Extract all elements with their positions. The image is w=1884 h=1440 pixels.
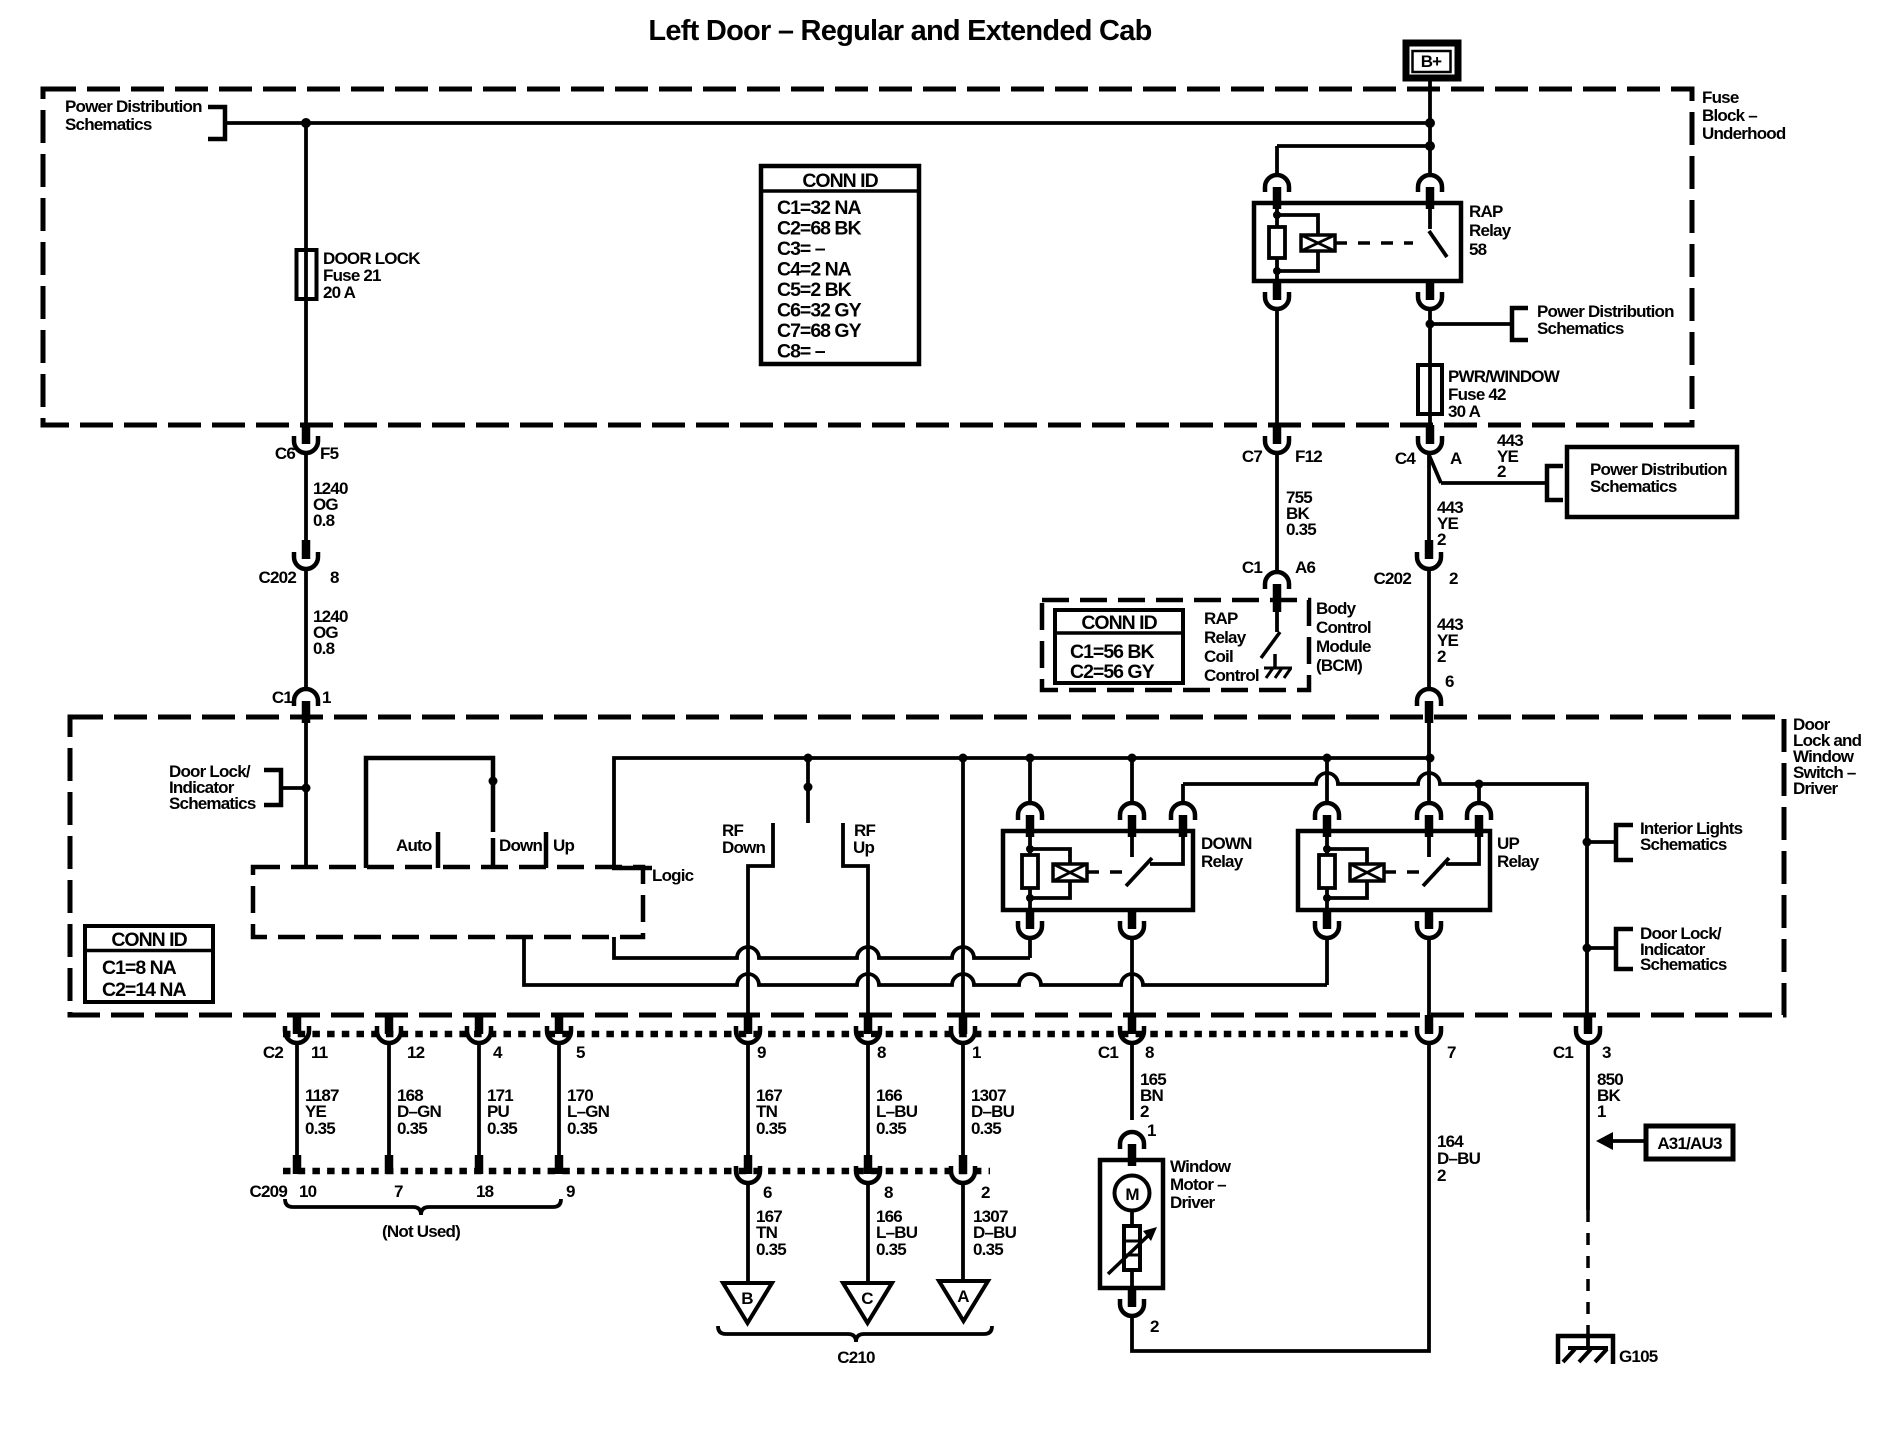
connector C202 pin 8: [259, 540, 339, 587]
node junction at B+ column: [1425, 118, 1435, 128]
wire down NO internal: [1150, 837, 1183, 864]
bracket power distribution top left: [208, 107, 225, 139]
svg-text:CONN ID: CONN ID: [111, 929, 187, 951]
svg-text:C7: C7: [1242, 447, 1262, 466]
connector strip C2 row: [283, 1031, 1414, 1038]
svg-text:0.35: 0.35: [397, 1119, 427, 1138]
svg-text:6: 6: [1445, 672, 1454, 691]
svg-text:18: 18: [476, 1182, 494, 1201]
wire BCM input: [1275, 612, 1279, 632]
fuse F42 PWR/WINDOW: [1418, 365, 1442, 414]
svg-text:C6=32 GY: C6=32 GY: [777, 300, 862, 322]
dashed actuation link RAP: [1335, 241, 1413, 245]
connector pin RAP coil bottom (cup): [1273, 281, 1282, 300]
svg-text:C210: C210: [837, 1348, 875, 1367]
svg-text:0.35: 0.35: [876, 1119, 906, 1138]
switch arm up relay: [1423, 858, 1449, 886]
svg-text:0.35: 0.35: [973, 1240, 1003, 1259]
svg-text:9: 9: [566, 1182, 575, 1201]
svg-text:11: 11: [311, 1043, 328, 1062]
svg-text:A: A: [1450, 449, 1462, 468]
wire down pole leg: [1130, 758, 1134, 803]
svg-text:CONN ID: CONN ID: [1081, 612, 1157, 634]
svg-text:C1=8 NA: C1=8 NA: [102, 957, 177, 979]
dashed actuation link down relay: [1087, 870, 1122, 874]
box A31/AU3: [1646, 1126, 1733, 1159]
BCM dashed box: [1042, 600, 1309, 690]
wire fuse21 column: [304, 123, 308, 425]
svg-text:Control: Control: [1204, 666, 1259, 685]
node rail col 1: [959, 754, 968, 763]
svg-text:Coil: Coil: [1204, 647, 1233, 666]
wire 167 TN upper: [746, 1043, 750, 1155]
wire up pole leg: [1427, 723, 1431, 803]
wire motor internal: [1130, 1211, 1134, 1226]
wire down pole output: [1130, 938, 1134, 1015]
svg-text:5: 5: [576, 1043, 585, 1062]
svg-text:Schematics: Schematics: [1590, 477, 1677, 496]
logic dashed box: [253, 867, 643, 937]
B+ power symbol: [1406, 43, 1458, 78]
svg-text:0.35: 0.35: [1286, 520, 1316, 539]
wire 1187 YE: [295, 1043, 299, 1155]
switch arm RAP: [1429, 231, 1447, 257]
svg-text:2: 2: [1437, 647, 1446, 666]
terminal triangle A: [939, 1281, 988, 1321]
svg-text:8: 8: [1145, 1043, 1154, 1062]
node rail down pole: [1128, 754, 1137, 763]
wire RAP switch output down: [1428, 309, 1432, 425]
svg-text:UP: UP: [1497, 834, 1519, 853]
wire 168 D-GN: [387, 1043, 391, 1155]
wire down coil parallel branch: [1030, 849, 1070, 898]
connector C202 pin 2: [1374, 540, 1458, 588]
svg-text:C: C: [861, 1289, 873, 1308]
svg-text:C7=68 GY: C7=68 GY: [777, 320, 862, 342]
connector pin 2 (C210 A): [951, 1155, 990, 1202]
wire 1307 D-BU lower: [961, 1183, 965, 1281]
wire 167 TN lower: [746, 1183, 750, 1283]
switch RAP relay coil control: [1261, 632, 1280, 658]
wire interior lights bracket: [1587, 840, 1616, 844]
svg-text:4: 4: [493, 1043, 503, 1062]
svg-text:F12: F12: [1295, 447, 1322, 466]
wire door lock bracket: [1587, 946, 1616, 950]
svg-text:Logic: Logic: [652, 866, 694, 885]
svg-text:Fuse: Fuse: [1702, 88, 1739, 107]
wire up coil leg: [1325, 758, 1329, 803]
connector strip C209 row: [283, 1168, 990, 1175]
svg-text:C2=68 BK: C2=68 BK: [777, 218, 862, 240]
wire 443 YE upper: [1427, 453, 1431, 540]
box Power Distribution Schematics: [1567, 447, 1737, 517]
svg-text:C6: C6: [275, 444, 295, 463]
svg-text:CONN ID: CONN ID: [802, 170, 878, 192]
svg-text:Down: Down: [499, 836, 542, 855]
wire up coil to logic rail: [1325, 938, 1329, 985]
svg-text:Block –: Block –: [1702, 106, 1757, 125]
wire RAP coil output down to C7: [1275, 309, 1279, 425]
svg-text:Relay: Relay: [1497, 852, 1540, 871]
switch contact Down/Up: [544, 832, 549, 868]
wire 755 BK: [1275, 453, 1279, 572]
svg-text:2: 2: [1150, 1317, 1159, 1336]
wire logic frame bottom stub: [612, 866, 652, 871]
svg-text:1: 1: [1597, 1102, 1606, 1121]
node up NO tap: [1475, 780, 1484, 789]
wire bracket to main: [281, 786, 306, 790]
motor box window motor driver: [1100, 1160, 1163, 1288]
svg-text:9: 9: [757, 1043, 766, 1062]
svg-text:C209: C209: [250, 1182, 288, 1201]
connector pin down pole top: [1120, 803, 1144, 820]
node switch common: [489, 777, 498, 786]
svg-text:12: 12: [407, 1043, 425, 1062]
svg-text:0.35: 0.35: [756, 1119, 786, 1138]
svg-text:B+: B+: [1421, 52, 1442, 71]
svg-text:(Not Used): (Not Used): [382, 1222, 460, 1241]
connector C6/F5: [275, 425, 339, 463]
wire B+ vertical drop: [1428, 81, 1432, 175]
svg-text:DOWN: DOWN: [1201, 834, 1252, 853]
svg-text:Motor –: Motor –: [1170, 1175, 1226, 1194]
wire up NO internal: [1446, 837, 1479, 864]
bracket door lock indicator left: [264, 770, 281, 805]
svg-text:M: M: [1125, 1185, 1139, 1204]
wire 171 PU: [477, 1043, 481, 1155]
arrow from A31/AU3: [1596, 1132, 1646, 1150]
svg-text:Module: Module: [1316, 637, 1371, 656]
wire to power distribution bracket: [1430, 322, 1512, 326]
svg-text:C8= –: C8= –: [777, 341, 826, 363]
relay RAP 58 box: [1254, 203, 1461, 281]
connector pin up NO top: [1467, 803, 1491, 820]
svg-text:3: 3: [1602, 1043, 1611, 1062]
svg-text:Driver: Driver: [1793, 779, 1839, 798]
wire 1240 OG upper: [304, 453, 308, 540]
wire down coil leg: [1028, 758, 1032, 803]
ground BCM internal: [1264, 668, 1292, 678]
wire relay feed rail: [614, 758, 1430, 866]
wire 1240 OG lower: [304, 569, 308, 689]
svg-text:F5: F5: [320, 444, 339, 463]
node RF pole pivot: [804, 783, 813, 792]
svg-text:1: 1: [1147, 1121, 1156, 1140]
wire logic to up relay coil rail: [524, 937, 1327, 985]
connector C1 pin A6 (BCM): [1242, 558, 1316, 612]
svg-text:0.35: 0.35: [305, 1119, 335, 1138]
svg-text:Control: Control: [1316, 618, 1371, 637]
motor M circle: [1115, 1176, 1150, 1211]
connector C2 pin 12: [377, 1015, 425, 1062]
connector motor pin 1: [1120, 1121, 1156, 1166]
svg-text:C2=14 NA: C2=14 NA: [102, 979, 187, 1001]
CONN ID table fuse block: [761, 166, 919, 364]
svg-text:A: A: [957, 1287, 969, 1306]
connector C7/F12: [1242, 425, 1322, 466]
svg-text:0.8: 0.8: [313, 511, 335, 530]
svg-text:0.35: 0.35: [756, 1240, 786, 1259]
wire logic to down relay coil rail: [614, 937, 1030, 958]
svg-text:Relay: Relay: [1201, 852, 1244, 871]
svg-text:RAP: RAP: [1204, 609, 1238, 628]
wire switch feed: [304, 723, 308, 867]
node interior lights tap: [1583, 838, 1592, 847]
bracket interior lights: [1616, 825, 1633, 860]
fuse F21 DOOR LOCK: [297, 250, 317, 299]
connector pin down pole bottom: [1128, 910, 1137, 929]
relay DOWN box: [1003, 831, 1193, 910]
svg-text:Driver: Driver: [1170, 1193, 1216, 1212]
switch assembly frame: [366, 758, 493, 868]
CONN ID table BCM: [1055, 610, 1183, 683]
svg-text:C4=2 NA: C4=2 NA: [777, 259, 852, 281]
svg-text:0.8: 0.8: [313, 639, 335, 658]
svg-text:1: 1: [322, 688, 331, 707]
switch arm down relay: [1126, 858, 1152, 886]
connector pin 6 (C210 B): [736, 1155, 772, 1202]
connector pin down coil top: [1018, 803, 1042, 820]
connector C1 pin 8 (switch to motor): [1098, 1015, 1154, 1062]
brace not used: [285, 1199, 561, 1215]
svg-text:1: 1: [972, 1043, 981, 1062]
svg-text:RAP: RAP: [1469, 202, 1503, 221]
svg-text:2: 2: [1497, 462, 1506, 481]
wire ground dashed: [1586, 1210, 1590, 1336]
wire motor return to pin 7: [1132, 1043, 1429, 1351]
node junction door lock tap: [302, 784, 311, 793]
coil X-box RAP: [1301, 235, 1335, 251]
relay UP box: [1298, 831, 1490, 910]
svg-text:Left Door – Regular and Extend: Left Door – Regular and Extended Cab: [648, 15, 1151, 47]
node down coil bottom: [1026, 894, 1034, 902]
svg-text:C1=32 NA: C1=32 NA: [777, 197, 862, 219]
svg-text:Schematics: Schematics: [169, 794, 256, 813]
wire down pole internal: [1130, 831, 1134, 857]
svg-text:0.35: 0.35: [487, 1119, 517, 1138]
connector C4/A: [1395, 425, 1462, 468]
svg-text:0.35: 0.35: [971, 1119, 1001, 1138]
node rail RF pole: [804, 754, 813, 763]
svg-text:C1=56 BK: C1=56 BK: [1070, 641, 1155, 663]
svg-text:Power Distribution: Power Distribution: [65, 97, 202, 116]
svg-text:Underhood: Underhood: [1702, 124, 1786, 143]
svg-text:Schematics: Schematics: [1640, 835, 1727, 854]
wire up coil parallel branch: [1327, 849, 1367, 898]
resistor down relay: [1022, 855, 1038, 888]
svg-text:A31/AU3: A31/AU3: [1657, 1134, 1722, 1153]
wire coil parallel branch: [1277, 215, 1318, 271]
svg-text:Window: Window: [1170, 1157, 1232, 1176]
svg-text:2: 2: [1140, 1102, 1149, 1121]
svg-text:C2: C2: [263, 1043, 283, 1062]
connector C2 pin 4: [467, 1015, 503, 1062]
ground G105: [1558, 1336, 1613, 1364]
bracket power distribution right: [1512, 308, 1528, 340]
node down coil top: [1026, 845, 1034, 853]
resistor up relay: [1319, 855, 1335, 888]
connector pin up coil top: [1315, 803, 1339, 820]
node coil top: [1273, 211, 1281, 219]
connector pin up coil bottom: [1323, 910, 1332, 929]
svg-text:2: 2: [1437, 530, 1446, 549]
svg-text:C1: C1: [1553, 1043, 1573, 1062]
CONN ID table driver switch: [85, 926, 213, 1002]
wire 443 YE lower: [1427, 569, 1431, 689]
wire 850 BK: [1586, 1043, 1590, 1210]
connector C209 pin 9 (not used): [555, 1155, 564, 1174]
connector pin down NO top: [1171, 803, 1195, 820]
wire RAP switch pole: [1428, 203, 1432, 229]
svg-text:0.35: 0.35: [876, 1240, 906, 1259]
connector pin RAP switch top (dome): [1418, 175, 1442, 192]
node junction power distribution tap: [1426, 320, 1435, 329]
connector C2 pin 11: [285, 1015, 328, 1062]
bracket door lock indicator right: [1616, 929, 1633, 969]
connector pin up pole bottom: [1425, 910, 1434, 929]
wire splice diagonal: [1429, 455, 1441, 483]
resistor RAP coil: [1269, 227, 1285, 258]
switch RF Down: [748, 823, 773, 1015]
svg-text:A6: A6: [1295, 558, 1315, 577]
connector motor pin 2: [1120, 1288, 1159, 1336]
wire up coil internal: [1325, 831, 1329, 910]
svg-text:8: 8: [884, 1183, 893, 1202]
node up coil top: [1323, 845, 1331, 853]
node rail up coil: [1323, 754, 1332, 763]
wire up NO leg: [1477, 784, 1481, 803]
svg-text:Relay: Relay: [1469, 221, 1512, 240]
wire RF switch pole: [806, 758, 810, 823]
svg-text:Up: Up: [853, 838, 874, 857]
coil X-box up relay: [1350, 864, 1384, 881]
svg-text:30 A: 30 A: [1448, 402, 1481, 421]
svg-text:C3= –: C3= –: [777, 238, 826, 260]
svg-text:8: 8: [877, 1043, 886, 1062]
wire to power distribution box: [1441, 481, 1547, 485]
dashed actuation link up relay: [1384, 870, 1419, 874]
svg-text:8: 8: [330, 568, 339, 587]
wire col 1 drop: [961, 758, 965, 1015]
connector pin RAP coil top (dome): [1265, 175, 1289, 192]
terminal triangle B: [723, 1283, 772, 1323]
connector C209 pin 18 (not used): [475, 1155, 484, 1174]
svg-text:B: B: [741, 1289, 753, 1308]
svg-text:PWR/WINDOW: PWR/WINDOW: [1448, 367, 1561, 386]
connector pin 6 into door switch: [1417, 672, 1454, 723]
node rail up pole: [1426, 754, 1435, 763]
node up coil bottom: [1323, 894, 1331, 902]
node coil bottom: [1273, 267, 1281, 275]
connector C1 pin 3: [1553, 1015, 1611, 1062]
svg-text:6: 6: [763, 1183, 772, 1202]
svg-text:C1: C1: [1098, 1043, 1118, 1062]
wire up pole internal: [1427, 831, 1431, 857]
svg-text:Schematics: Schematics: [1640, 955, 1727, 974]
svg-text:C1: C1: [272, 688, 292, 707]
wire branch to RAP relay coil: [1277, 144, 1430, 148]
node rail down coil: [1026, 754, 1035, 763]
svg-text:Schematics: Schematics: [1537, 319, 1624, 338]
bracket power distribution mid: [1547, 466, 1563, 500]
svg-text:Schematics: Schematics: [65, 115, 152, 134]
door lock and window switch dashed box: [70, 717, 1784, 1015]
node junction RAP branch: [1425, 141, 1435, 151]
svg-text:(BCM): (BCM): [1316, 656, 1362, 675]
wire B+ feed horizontal: [225, 121, 1430, 125]
svg-text:C4: C4: [1395, 449, 1416, 468]
node door lock tap: [1583, 944, 1592, 953]
connector C209 pin 10 (not used): [293, 1155, 302, 1174]
svg-text:C2=56 GY: C2=56 GY: [1070, 661, 1155, 683]
connector pin up pole top: [1417, 803, 1441, 820]
connector C2 pin 8: [856, 1015, 886, 1062]
svg-text:2: 2: [981, 1183, 990, 1202]
svg-text:2: 2: [1437, 1166, 1446, 1185]
svg-text:0.35: 0.35: [567, 1119, 597, 1138]
wire 166 L-BU lower: [866, 1183, 870, 1283]
connector C209 pin 7 (not used): [385, 1155, 394, 1174]
svg-text:C202: C202: [259, 568, 297, 587]
svg-text:10: 10: [299, 1182, 317, 1201]
svg-text:20 A: 20 A: [323, 283, 356, 302]
svg-text:7: 7: [1447, 1043, 1456, 1062]
connector pin down coil bottom: [1026, 910, 1035, 929]
connector pin 7: [1417, 1015, 1456, 1062]
wire down coil internal: [1028, 831, 1032, 910]
svg-text:C202: C202: [1374, 569, 1412, 588]
fuse block underhood dashed box: [43, 89, 1692, 425]
svg-text:Body: Body: [1316, 599, 1357, 618]
wire NO contacts bus: [1183, 773, 1587, 1015]
connector C2 pin 5: [547, 1015, 585, 1062]
connector C2 pin 9: [736, 1015, 766, 1062]
wire RAP coil internal: [1275, 203, 1279, 281]
wire down coil to logic rail: [1028, 938, 1032, 958]
svg-text:Auto: Auto: [396, 836, 432, 855]
svg-text:Up: Up: [553, 836, 574, 855]
connector C1 pin 1 (driver switch): [272, 688, 331, 723]
svg-text:G105: G105: [1619, 1347, 1658, 1366]
coil X-box down relay: [1053, 864, 1087, 881]
svg-text:Relay: Relay: [1204, 628, 1247, 647]
switch contact Auto: [436, 832, 441, 868]
svg-text:7: 7: [394, 1182, 403, 1201]
wire 170 L-GN: [557, 1043, 561, 1155]
terminal triangle C: [843, 1283, 892, 1323]
switch RF Up: [843, 823, 868, 1015]
connector C2 pin 1: [951, 1015, 981, 1062]
brace C210: [718, 1326, 992, 1342]
svg-text:C1: C1: [1242, 558, 1262, 577]
svg-text:58: 58: [1469, 240, 1487, 259]
wire up pole output: [1427, 938, 1431, 1015]
svg-text:Down: Down: [722, 838, 765, 857]
connector pin 8 (C210 C): [856, 1155, 893, 1202]
svg-text:C5=2 BK: C5=2 BK: [777, 279, 852, 301]
variable resistor motor: [1108, 1226, 1157, 1274]
wire 166 L-BU upper: [866, 1043, 870, 1155]
connector pin RAP switch bottom (cup): [1426, 281, 1435, 300]
node junction at fuse 21 tap: [301, 118, 311, 128]
wire down NO leg: [1181, 784, 1185, 803]
wire 1307 D-BU upper: [961, 1043, 965, 1155]
wire motor internal lower: [1130, 1270, 1134, 1288]
wire RAP coil leg upper: [1275, 146, 1279, 175]
wire 165 BN: [1130, 1043, 1134, 1120]
svg-text:2: 2: [1449, 569, 1458, 588]
